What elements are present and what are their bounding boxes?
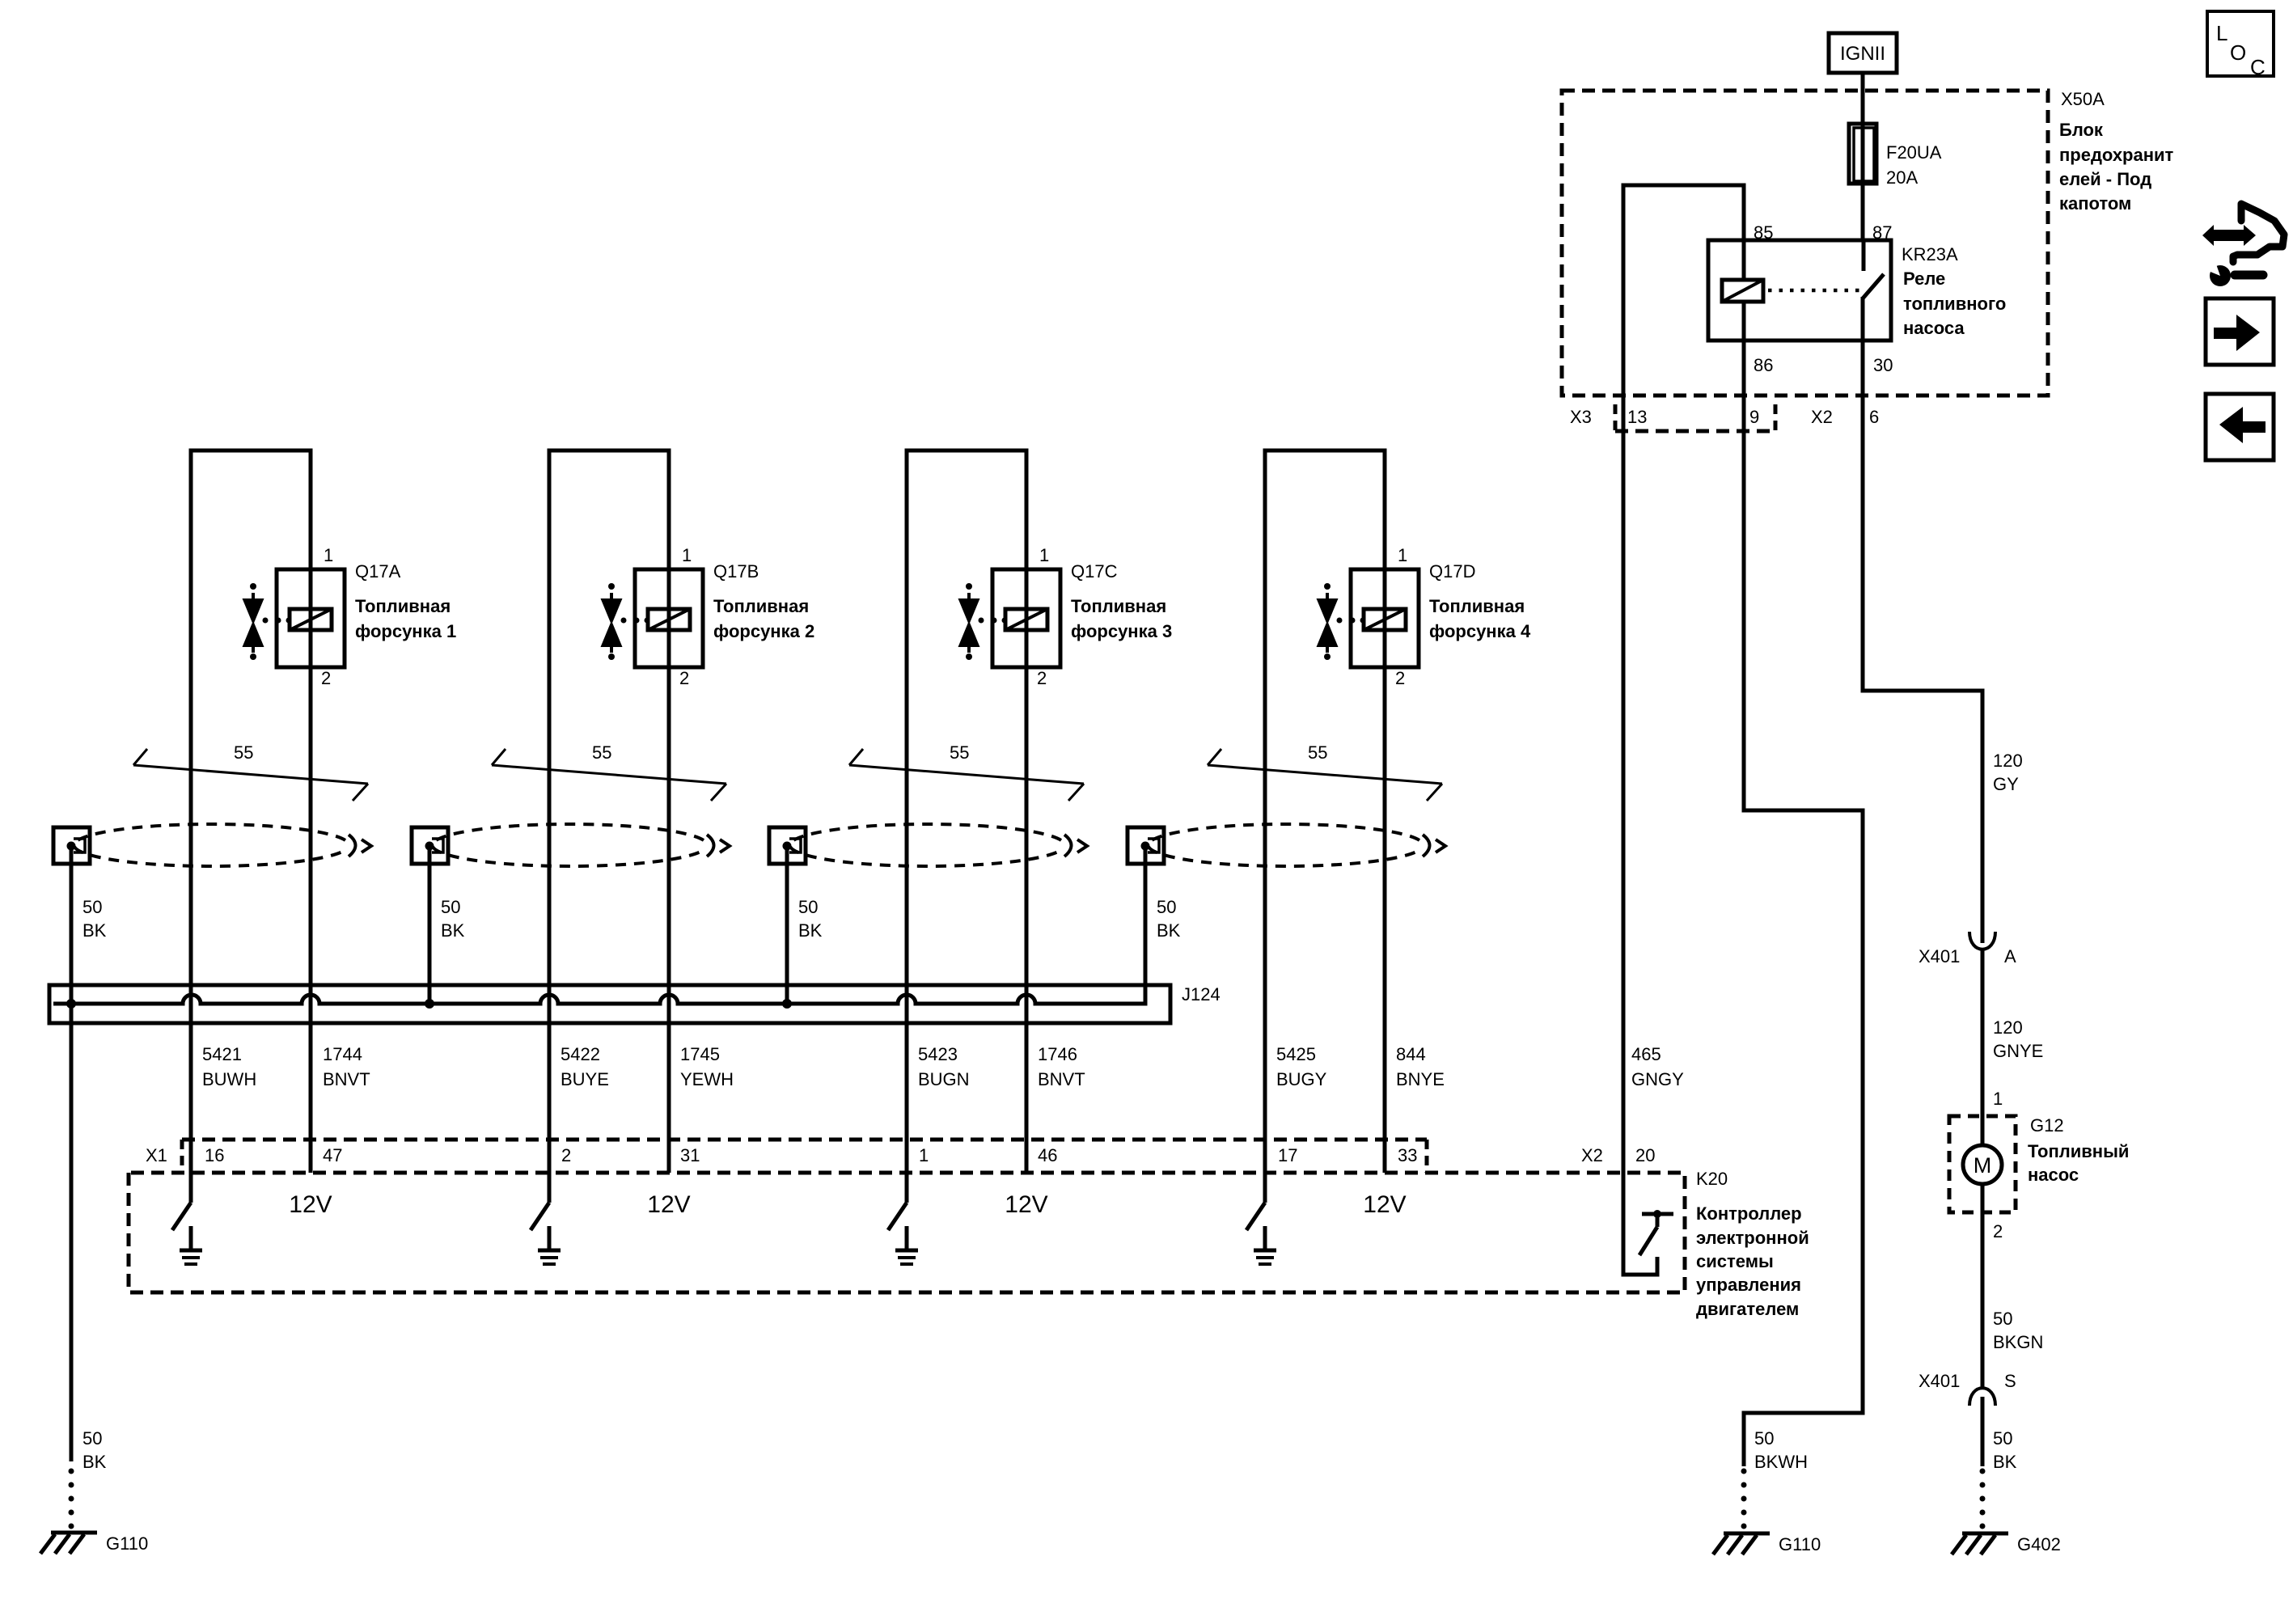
- svg-text:BK: BK: [441, 920, 465, 941]
- wire 50 BK shield drain 3: [787, 845, 823, 1005]
- icon LOC legend box: [2207, 11, 2274, 79]
- svg-text:двигателем: двигателем: [1696, 1299, 1799, 1319]
- svg-text:BNYE: BNYE: [1396, 1069, 1445, 1089]
- svg-text:X2: X2: [1811, 407, 1833, 427]
- svg-text:9: 9: [1749, 407, 1759, 427]
- svg-text:предохранит: предохранит: [2059, 145, 2174, 165]
- svg-text:2: 2: [1037, 668, 1047, 688]
- svg-text:50: 50: [1993, 1428, 2012, 1448]
- junction dots on J124 bus: [66, 999, 76, 1009]
- svg-text:G12: G12: [2030, 1115, 2064, 1136]
- svg-text:5422: 5422: [561, 1044, 600, 1064]
- wire loop injector 1: [191, 450, 311, 1203]
- svg-text:1746: 1746: [1038, 1044, 1077, 1064]
- svg-text:2: 2: [321, 668, 331, 688]
- svg-text:IGNII: IGNII: [1840, 43, 1885, 65]
- wire 50 BK shield drain 1: [71, 845, 107, 1461]
- wire loop injector 3: [907, 450, 1026, 1203]
- svg-text:Q17A: Q17A: [355, 561, 401, 582]
- ECM driver switch injector 3: [888, 1173, 918, 1264]
- svg-text:12V: 12V: [289, 1191, 332, 1218]
- svg-text:12V: 12V: [647, 1191, 690, 1218]
- svg-text:BUGN: BUGN: [918, 1069, 970, 1089]
- wire 50 BK shield drain 2: [429, 845, 465, 1005]
- svg-text:Топливная: Топливная: [1071, 596, 1166, 616]
- wire IGNII to fuse F20UA: [1861, 73, 1865, 184]
- svg-text:управления: управления: [1696, 1275, 1801, 1295]
- shield ellipse injector 3: [790, 824, 1087, 866]
- wire relay 86 to connector X3 pin 9 then to ground G110: [1744, 340, 1863, 1466]
- svg-text:Контроллер: Контроллер: [1696, 1203, 1802, 1224]
- svg-text:1: 1: [1039, 545, 1049, 565]
- svg-text:C: C: [2250, 55, 2266, 79]
- svg-text:форсунка 3: форсунка 3: [1071, 621, 1172, 641]
- svg-text:KR23A: KR23A: [1902, 244, 1958, 264]
- svg-text:G110: G110: [1779, 1534, 1821, 1554]
- svg-text:Реле: Реле: [1903, 269, 1945, 289]
- svg-text:1: 1: [324, 545, 333, 565]
- svg-text:BNVT: BNVT: [1038, 1069, 1085, 1089]
- svg-text:120: 120: [1993, 1017, 2023, 1038]
- svg-text:30: 30: [1873, 355, 1893, 375]
- svg-text:BK: BK: [798, 920, 823, 941]
- svg-text:BK: BK: [1157, 920, 1181, 941]
- shield line 55 injector 2: [492, 742, 726, 801]
- fuel pump G12 motor: [1949, 1115, 2129, 1241]
- svg-text:50: 50: [1993, 1309, 2012, 1329]
- svg-text:13: 13: [1627, 407, 1647, 427]
- svg-text:G110: G110: [106, 1533, 148, 1554]
- shield ellipse injector 1: [74, 824, 371, 866]
- svg-text:F20UA: F20UA: [1886, 142, 1942, 163]
- shield drain connector injector 2: [412, 827, 448, 864]
- svg-text:1: 1: [682, 545, 692, 565]
- ECM driver switch injector 4: [1246, 1173, 1276, 1264]
- ECM connector X2 pin 20 labels: [1581, 1145, 1655, 1165]
- svg-text:системы: системы: [1696, 1251, 1774, 1271]
- icon arrow left box: [2206, 394, 2274, 460]
- connector X2 (fuse block) labels: [1811, 407, 1879, 427]
- ECM K20 dashed box: [129, 1169, 1809, 1319]
- svg-text:31: 31: [680, 1145, 700, 1165]
- svg-text:33: 33: [1398, 1145, 1417, 1165]
- svg-text:50: 50: [441, 897, 460, 917]
- svg-text:форсунка 1: форсунка 1: [355, 621, 456, 641]
- svg-text:BUWH: BUWH: [202, 1069, 256, 1089]
- svg-text:GY: GY: [1993, 774, 2019, 794]
- ECM driver switch injector 2: [531, 1173, 561, 1264]
- svg-text:топливного: топливного: [1903, 294, 2006, 314]
- svg-text:K20: K20: [1696, 1169, 1728, 1189]
- svg-text:1: 1: [919, 1145, 929, 1165]
- svg-text:насоса: насоса: [1903, 318, 1965, 338]
- svg-text:85: 85: [1754, 222, 1773, 243]
- svg-text:20: 20: [1635, 1145, 1655, 1165]
- ground G110 bottom left: [40, 1533, 148, 1554]
- wire loop injector 4: [1265, 450, 1385, 1203]
- svg-text:5421: 5421: [202, 1044, 242, 1064]
- svg-text:50: 50: [1754, 1428, 1774, 1448]
- svg-text:Топливная: Топливная: [355, 596, 451, 616]
- svg-text:электронной: электронной: [1696, 1228, 1809, 1248]
- svg-text:2: 2: [1993, 1221, 2003, 1241]
- svg-text:X3: X3: [1570, 407, 1592, 427]
- shield line 55 injector 3: [849, 742, 1084, 801]
- injector Q17C fuel injector 3: [959, 545, 1172, 688]
- svg-text:GNGY: GNGY: [1631, 1069, 1684, 1089]
- svg-text:Топливная: Топливная: [713, 596, 809, 616]
- svg-text:Топливная: Топливная: [1429, 596, 1525, 616]
- splice pack J124: [49, 985, 1170, 1023]
- svg-text:X401: X401: [1919, 1371, 1960, 1391]
- connector X401 pin A: [1919, 932, 2016, 966]
- node IGNII power feed: [1829, 33, 1897, 73]
- svg-text:BK: BK: [1993, 1452, 2017, 1472]
- svg-text:55: 55: [1308, 742, 1327, 763]
- shield ellipse injector 2: [433, 824, 730, 866]
- svg-text:17: 17: [1278, 1145, 1297, 1165]
- svg-text:BK: BK: [82, 1452, 107, 1472]
- relay KR23A fuel pump relay: [1708, 240, 2006, 340]
- svg-text:86: 86: [1754, 355, 1773, 375]
- icon arrow right box: [2206, 298, 2274, 365]
- svg-text:BK: BK: [82, 920, 107, 941]
- ECM connector X1 strip: [146, 1140, 1427, 1173]
- svg-text:20A: 20A: [1886, 167, 1918, 188]
- svg-text:X50A: X50A: [2061, 89, 2105, 109]
- svg-text:G402: G402: [2017, 1534, 2061, 1554]
- svg-text:120: 120: [1993, 751, 2023, 771]
- svg-text:Блок: Блок: [2059, 120, 2104, 140]
- shield drain connector injector 4: [1127, 827, 1164, 864]
- shield drain connector injector 3: [769, 827, 806, 864]
- svg-text:YEWH: YEWH: [680, 1069, 734, 1089]
- wire 120 GY labels: [1993, 751, 2023, 794]
- svg-text:BUYE: BUYE: [561, 1069, 609, 1089]
- injector Q17D fuel injector 4: [1318, 545, 1531, 688]
- wire 50 BK left to ground G110: [69, 1428, 107, 1529]
- wire relay 30 via X2 pin 6 to fuel pump (120 GY): [1863, 340, 1982, 943]
- wire relay 85 to connector X3 pin 13 (down to K20 X2-20): [1623, 185, 1744, 1275]
- wire fuse to relay pin 87: [1861, 184, 1865, 240]
- svg-text:Q17B: Q17B: [713, 561, 759, 582]
- wire loop injector 2: [549, 450, 669, 1203]
- wire 50 BKWH labels: [1741, 1428, 1809, 1529]
- fuse F20UA 20A: [1849, 124, 1942, 188]
- svg-text:M: M: [1974, 1153, 1992, 1178]
- ground G110 bottom right: [1713, 1533, 1821, 1554]
- fuse block X50A dashed box: [1562, 89, 2174, 395]
- svg-text:BKGN: BKGN: [1993, 1332, 2043, 1352]
- svg-text:5423: 5423: [918, 1044, 958, 1064]
- svg-text:5425: 5425: [1276, 1044, 1316, 1064]
- shield ellipse injector 4: [1149, 824, 1445, 866]
- svg-text:насос: насос: [2028, 1165, 2079, 1185]
- ECM fuel pump relay driver switch (pin 20): [1639, 1210, 1673, 1255]
- shield line 55 injector 1: [133, 742, 368, 801]
- wire 50 BKGN fuel pump to X401 S: [1982, 1212, 2043, 1389]
- svg-text:2: 2: [1395, 668, 1405, 688]
- svg-text:12V: 12V: [1005, 1191, 1047, 1218]
- svg-text:55: 55: [592, 742, 611, 763]
- svg-text:50: 50: [798, 897, 818, 917]
- svg-text:1: 1: [1993, 1089, 2003, 1109]
- svg-text:S: S: [2004, 1371, 2016, 1391]
- svg-text:844: 844: [1396, 1044, 1426, 1064]
- svg-text:L: L: [2216, 21, 2227, 45]
- svg-text:елей - Под: елей - Под: [2059, 169, 2151, 189]
- svg-text:O: O: [2230, 40, 2246, 65]
- svg-text:BNVT: BNVT: [323, 1069, 370, 1089]
- svg-text:465: 465: [1631, 1044, 1661, 1064]
- injector Q17A fuel injector 1: [243, 545, 456, 688]
- svg-text:87: 87: [1872, 222, 1892, 243]
- svg-text:50: 50: [82, 897, 102, 917]
- shield line 55 injector 4: [1208, 742, 1442, 801]
- svg-text:55: 55: [950, 742, 969, 763]
- svg-text:X1: X1: [146, 1145, 167, 1165]
- svg-text:47: 47: [323, 1145, 342, 1165]
- shield drain connector injector 1: [53, 827, 90, 864]
- svg-text:50: 50: [1157, 897, 1176, 917]
- ground G402 bottom right: [1952, 1533, 2061, 1554]
- svg-text:6: 6: [1869, 407, 1879, 427]
- svg-text:16: 16: [205, 1145, 224, 1165]
- wire 50 BK to ground G402: [1980, 1397, 2017, 1529]
- svg-text:50: 50: [82, 1428, 102, 1448]
- connector X3 labels and bracket: [1570, 404, 1775, 431]
- svg-text:форсунка 2: форсунка 2: [713, 621, 814, 641]
- svg-text:46: 46: [1038, 1145, 1057, 1165]
- svg-text:X401: X401: [1919, 946, 1960, 966]
- svg-text:Q17C: Q17C: [1071, 561, 1118, 582]
- svg-text:BUGY: BUGY: [1276, 1069, 1327, 1089]
- relay pin labels 85 87 86 30: [1754, 222, 1893, 375]
- svg-text:1: 1: [1398, 545, 1407, 565]
- svg-text:2: 2: [561, 1145, 571, 1165]
- svg-text:BKWH: BKWH: [1754, 1452, 1808, 1472]
- svg-text:X2: X2: [1581, 1145, 1603, 1165]
- svg-text:Топливный: Топливный: [2028, 1141, 2129, 1161]
- svg-text:1745: 1745: [680, 1044, 720, 1064]
- svg-text:2: 2: [679, 668, 689, 688]
- svg-text:55: 55: [234, 742, 253, 763]
- wire 120 GNYE to fuel pump: [1982, 948, 2043, 1116]
- ECM driver switch injector 1: [172, 1173, 202, 1264]
- injector Q17B fuel injector 2: [602, 545, 814, 688]
- svg-text:Q17D: Q17D: [1429, 561, 1475, 582]
- svg-text:A: A: [2004, 946, 2016, 966]
- wire 50 BK shield drain 4: [1145, 845, 1181, 1005]
- connector X401 pin S: [1919, 1371, 2016, 1406]
- svg-text:капотом: капотом: [2059, 193, 2131, 214]
- svg-text:J124: J124: [1182, 984, 1221, 1004]
- icon harness doodle: [2202, 204, 2284, 286]
- wire labels 5421 BUWH / 1744 BNVT etc: [202, 1044, 1684, 1089]
- svg-text:1744: 1744: [323, 1044, 362, 1064]
- svg-text:12V: 12V: [1363, 1191, 1406, 1218]
- svg-text:GNYE: GNYE: [1993, 1041, 2043, 1061]
- svg-text:форсунка 4: форсунка 4: [1429, 621, 1531, 641]
